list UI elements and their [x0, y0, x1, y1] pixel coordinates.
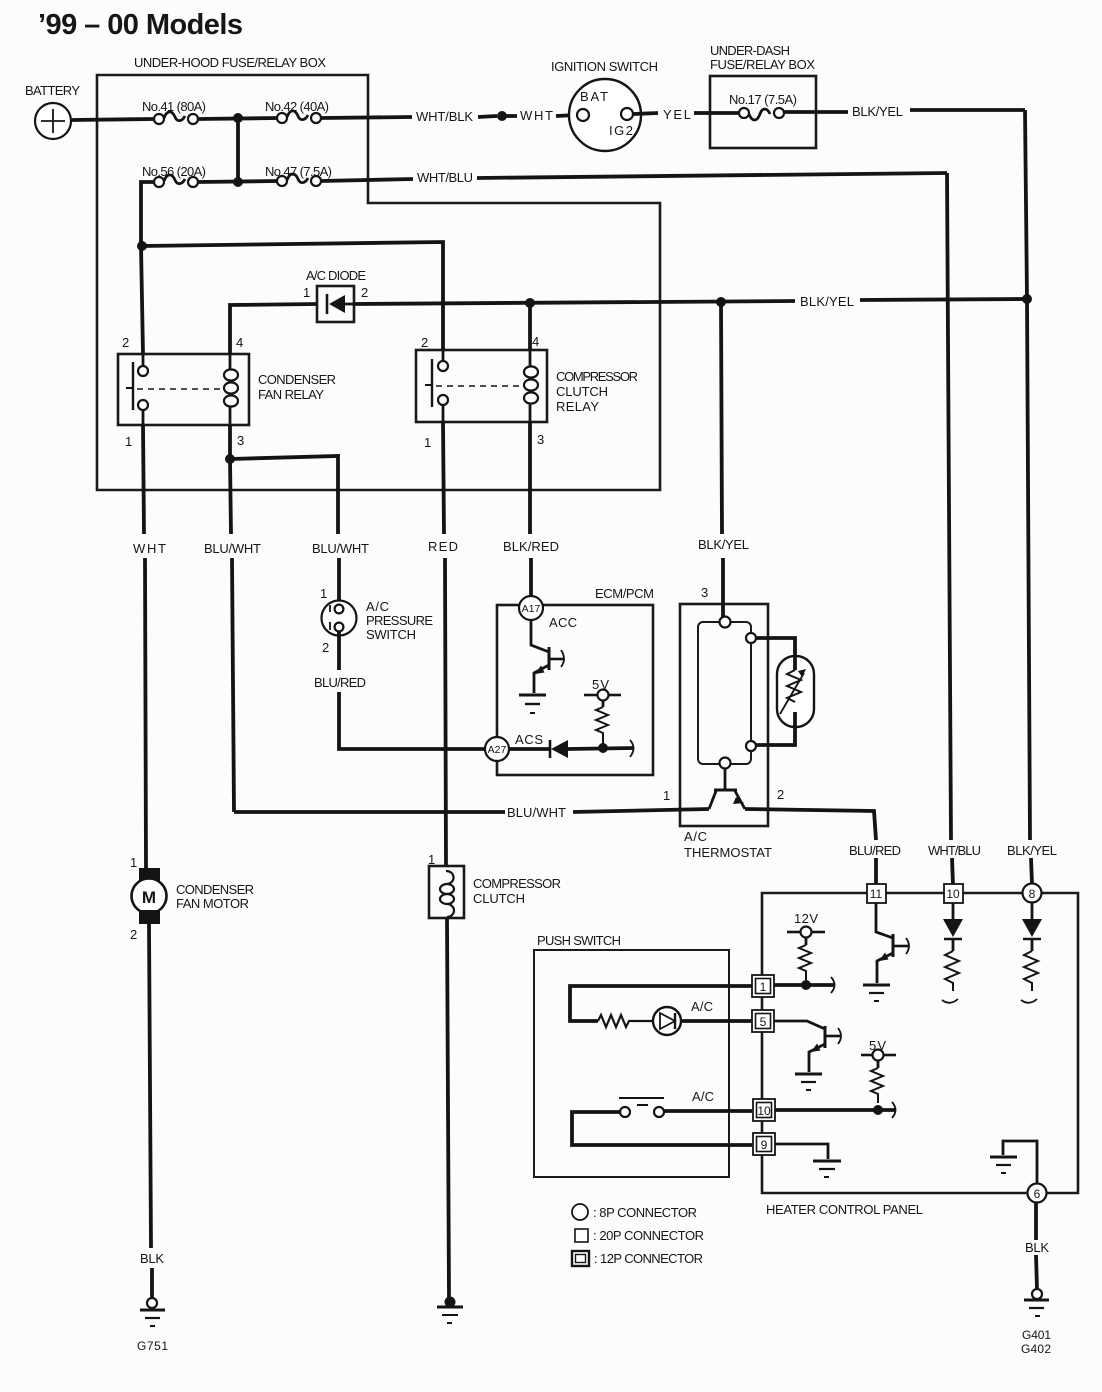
wire BLK/YEL thermostat column	[721, 302, 723, 617]
fuse No.17 (7.5A)	[729, 92, 797, 120]
wire IG2 to YEL label	[633, 113, 658, 114]
wire BLK panel to ground	[1036, 1203, 1037, 1289]
wire label BLU/WHT 2	[312, 541, 369, 556]
svg-text:2: 2	[361, 285, 368, 300]
svg-text:9: 9	[761, 1138, 768, 1152]
resistor R4 under pin10	[942, 951, 959, 1003]
svg-text:BLU/WHT: BLU/WHT	[312, 541, 369, 556]
svg-text:IGNITION SWITCH: IGNITION SWITCH	[551, 59, 658, 74]
wire compressor relay pin4 up to BLK/YEL row	[528, 303, 532, 350]
wire switch row to pin10	[664, 1109, 752, 1113]
svg-text:CONDENSER: CONDENSER	[258, 372, 336, 387]
diode D2 in ECM	[509, 740, 568, 758]
connector 11 20P	[867, 884, 886, 903]
ground in ECM	[519, 695, 546, 713]
svg-text:2: 2	[322, 640, 329, 655]
svg-text:A17: A17	[522, 603, 541, 615]
svg-text:ACS: ACS	[515, 732, 543, 747]
svg-text:A27: A27	[488, 744, 507, 756]
under-hood fuse/relay box	[97, 55, 660, 490]
svg-text:BLU/RED: BLU/RED	[314, 675, 366, 690]
svg-text:: 12P CONNECTOR: : 12P CONNECTOR	[594, 1251, 703, 1266]
svg-text:BLK/YEL: BLK/YEL	[800, 294, 854, 309]
svg-text:2: 2	[421, 335, 428, 350]
compressor clutch relay RY2	[416, 334, 638, 450]
wire thermostat pin2 to BLU/RED	[745, 809, 876, 884]
svg-text:A/C: A/C	[691, 999, 713, 1014]
fuse No.47 (7.5A)	[265, 164, 332, 186]
svg-text:A/C: A/C	[692, 1089, 714, 1104]
wire ACS line with junction	[568, 740, 634, 757]
svg-text:11: 11	[870, 887, 883, 901]
wire BLK/YEL right vertical lower	[1027, 299, 1032, 884]
wire label BLU/WHT 1	[204, 541, 261, 556]
ground G401 G402	[1021, 1289, 1051, 1356]
svg-text:BLK/YEL: BLK/YEL	[698, 537, 749, 552]
svg-text:4: 4	[532, 334, 539, 349]
junction node WHT	[497, 111, 507, 121]
svg-text:BLK/RED: BLK/RED	[503, 539, 559, 554]
ground G751	[137, 1298, 168, 1353]
svg-text:ACC: ACC	[549, 615, 577, 630]
wire lamp to pin5	[681, 1019, 752, 1023]
svg-text:RELAY: RELAY	[556, 399, 599, 414]
heater control panel box	[762, 893, 1078, 1217]
resistor R3 12V pullup	[799, 945, 811, 980]
svg-text:WHT/BLU: WHT/BLU	[928, 843, 981, 858]
wire label WHT/BLU right	[928, 843, 981, 858]
wire label BLK/YEL top	[852, 104, 903, 119]
svg-text:1: 1	[320, 586, 327, 601]
wire label BLK/YEL right	[1007, 843, 1057, 858]
wire pin10 internal with junction	[775, 1102, 896, 1118]
svg-text:G402: G402	[1021, 1342, 1051, 1356]
compressor clutch L1	[428, 852, 561, 918]
svg-text:ECM/PCM: ECM/PCM	[595, 586, 654, 601]
connector 6 8P	[1028, 1184, 1047, 1203]
svg-text:SWITCH: SWITCH	[366, 627, 416, 642]
junction node branch to compressor relay	[137, 241, 147, 251]
svg-text:PUSH SWITCH: PUSH SWITCH	[537, 933, 621, 948]
under-dash fuse/relay box	[710, 43, 816, 148]
thermistor RT1 capsule	[756, 638, 814, 745]
svg-text:No.17 (7.5A): No.17 (7.5A)	[729, 92, 797, 107]
svg-text:UNDER-DASH: UNDER-DASH	[710, 43, 790, 58]
wire pin6 internal bracket	[1003, 1141, 1037, 1184]
junction node row1	[233, 113, 243, 123]
ground Q2 emitter	[863, 985, 890, 1001]
svg-text:4: 4	[236, 335, 243, 350]
A/C pressure switch SW2	[320, 586, 433, 655]
svg-text:1: 1	[125, 434, 132, 449]
svg-text:1: 1	[424, 435, 431, 450]
svg-text:COMPRESSOR: COMPRESSOR	[556, 369, 638, 384]
svg-text:WHT/BLK: WHT/BLK	[416, 109, 473, 124]
junction node row2	[233, 177, 243, 187]
wire BLK/YEL to right corner	[910, 108, 1025, 112]
connector A17	[519, 596, 577, 630]
wire fuse41 to fuse42 with junction	[198, 118, 278, 119]
wire label WHT/BLK	[416, 109, 473, 124]
ECM/PCM U1	[497, 586, 654, 775]
wire BLU/RED pressure switch down	[339, 631, 484, 749]
ground pin6	[990, 1157, 1017, 1173]
wire label BLK left	[140, 1251, 164, 1266]
svg-text:YEL: YEL	[663, 107, 691, 122]
A/C thermostat TH1	[663, 585, 784, 860]
svg-text:G751: G751	[137, 1339, 168, 1353]
wire fuse47 to WHT/BLU label	[321, 179, 413, 181]
wire fuse56 to left corner	[141, 182, 154, 246]
legend 8P connector	[572, 1204, 697, 1220]
svg-text:WHT: WHT	[520, 108, 553, 123]
connector 10 12P	[753, 1099, 775, 1121]
svg-text:5: 5	[760, 1015, 767, 1029]
svg-text:No.41 (80A): No.41 (80A)	[142, 99, 206, 114]
wire branch to pressure switch column	[230, 456, 338, 490]
svg-text:G401: G401	[1022, 1328, 1051, 1342]
wire junction to fuse47	[198, 181, 278, 182]
wire pin9 internal to ground	[775, 1144, 828, 1159]
resistor R5 under pin8	[1021, 951, 1038, 1003]
svg-text:FAN MOTOR: FAN MOTOR	[176, 896, 249, 911]
wire switch loop to pin9	[572, 1112, 752, 1145]
wire BLU/WHT row to thermostat pin1	[234, 809, 709, 812]
svg-text:’99 – 00 Models: ’99 – 00 Models	[38, 9, 243, 41]
wire into fuse No.17	[710, 111, 739, 115]
wire condenser relay pin3 down	[228, 425, 232, 459]
wire label BLU/RED	[314, 675, 366, 690]
svg-text:: 20P CONNECTOR: : 20P CONNECTOR	[593, 1228, 704, 1243]
svg-text:BLU/RED: BLU/RED	[849, 843, 901, 858]
wire pin1 internal with junction	[774, 977, 835, 993]
A/C diode D1	[303, 268, 368, 322]
wire WHT/BLK to junction	[478, 116, 497, 117]
svg-text:FAN RELAY: FAN RELAY	[258, 387, 324, 402]
transistor Q3 pin5	[774, 1021, 841, 1072]
wire label RED	[428, 539, 458, 554]
svg-text:6: 6	[1034, 1187, 1041, 1201]
connector 9 12P	[753, 1133, 775, 1155]
connector A27	[485, 732, 543, 761]
svg-text:BLK/YEL: BLK/YEL	[852, 104, 903, 119]
5V supply in ECM	[584, 677, 621, 707]
svg-text:BAT: BAT	[580, 89, 608, 104]
wire label BLK right	[1025, 1240, 1049, 1255]
condenser fan relay RY1	[118, 335, 336, 449]
junction node BLK/YEL right vertical	[1022, 294, 1032, 304]
wire label BLU/WHT row	[507, 805, 566, 820]
svg-text:COMPRESSOR: COMPRESSOR	[473, 876, 561, 891]
svg-text:A/C DIODE: A/C DIODE	[306, 268, 366, 283]
svg-text:8: 8	[1029, 887, 1036, 901]
fuse No.56 (20A)	[142, 164, 206, 187]
12V supply in panel	[787, 911, 825, 945]
wire condenser relay pin4 to A/C diode	[230, 304, 317, 354]
legend 12P connector	[572, 1251, 703, 1266]
transistor Q1 in ECM	[531, 620, 564, 693]
wire WHT motor to ground	[149, 924, 152, 1298]
svg-text:CLUTCH: CLUTCH	[473, 891, 525, 906]
svg-text:RED: RED	[428, 539, 458, 554]
wire label BLK/YEL mid	[800, 294, 854, 309]
connector 8 8P	[1023, 884, 1042, 903]
svg-text:1: 1	[663, 788, 670, 803]
connector 1 12P	[752, 975, 774, 997]
wire RED column	[443, 422, 446, 866]
ignition switch SW1	[551, 59, 658, 151]
svg-text:CONDENSER: CONDENSER	[176, 882, 254, 897]
junction node pin3 branch	[225, 454, 235, 464]
5V supply in panel	[861, 1038, 896, 1068]
svg-text:UNDER-HOOD FUSE/RELAY BOX: UNDER-HOOD FUSE/RELAY BOX	[134, 55, 326, 70]
wire WHT/BLU right vertical	[947, 173, 953, 885]
thermostat output stage	[709, 768, 745, 809]
wire label WHT/BLU	[417, 170, 473, 185]
svg-text:CLUTCH: CLUTCH	[556, 384, 608, 399]
wire label WHT	[520, 108, 553, 123]
wire BLU/WHT column 1	[230, 459, 234, 812]
wire WHT to ignition BAT terminal	[556, 115, 577, 116]
svg-text:No.47 (7.5A): No.47 (7.5A)	[265, 164, 332, 179]
wire BLU/WHT column 2	[338, 490, 339, 602]
wire BLK/YEL row right segment	[860, 299, 1027, 300]
legend 20P connector	[575, 1228, 704, 1243]
connector 10 20P	[944, 884, 963, 903]
title '99-00 Models	[38, 9, 243, 41]
wire battery to fuse No.41	[72, 119, 155, 120]
wire BLK/YEL right vertical upper	[1025, 110, 1027, 299]
svg-text:: 8P CONNECTOR: : 8P CONNECTOR	[593, 1205, 697, 1220]
svg-text:1: 1	[760, 980, 767, 994]
wire label YEL	[663, 107, 691, 122]
svg-text:M: M	[142, 888, 156, 907]
svg-text:BATTERY: BATTERY	[25, 83, 80, 98]
svg-text:BLU/WHT: BLU/WHT	[204, 541, 261, 556]
wire BLK/RED column	[530, 422, 531, 596]
wire fuse17 to BLK/YEL label	[784, 110, 848, 114]
wire label BLK/YEL column	[698, 537, 749, 552]
momentary switch A/C	[619, 1089, 714, 1117]
svg-text:BLU/WHT: BLU/WHT	[507, 805, 566, 820]
wire row2 fuse56 feed from junction	[236, 118, 240, 182]
wire YEL to under-dash box	[694, 111, 710, 115]
indicator lamp A/C	[653, 999, 713, 1035]
svg-text:BLK: BLK	[140, 1251, 164, 1266]
svg-text:2: 2	[130, 927, 137, 942]
wire junction to WHT label	[506, 114, 517, 118]
svg-text:BLK/YEL: BLK/YEL	[1007, 843, 1057, 858]
svg-text:3: 3	[237, 433, 244, 448]
resistor R2 push switch	[598, 1015, 653, 1027]
transistor Q2 pin11	[876, 903, 909, 983]
svg-text:THERMOSTAT: THERMOSTAT	[684, 845, 772, 860]
ground pin9	[813, 1161, 841, 1177]
push switch box	[534, 933, 729, 1177]
wire WHT/BLU to right vertical	[477, 173, 947, 178]
svg-text:10: 10	[757, 1104, 771, 1118]
svg-text:HEATER CONTROL PANEL: HEATER CONTROL PANEL	[766, 1202, 923, 1217]
svg-text:3: 3	[701, 585, 708, 600]
wire label BLU/RED right	[849, 843, 901, 858]
wire RED clutch to ground	[447, 918, 449, 1298]
svg-text:WHT: WHT	[133, 541, 166, 556]
svg-text:3: 3	[537, 432, 544, 447]
svg-text:A/C: A/C	[684, 829, 707, 844]
svg-text:A/C: A/C	[366, 599, 389, 614]
svg-text:2: 2	[122, 335, 129, 350]
svg-text:2: 2	[777, 787, 784, 802]
svg-text:BLK: BLK	[1025, 1240, 1049, 1255]
condenser fan motor M1	[130, 855, 254, 942]
resistor R1 in ECM	[596, 707, 608, 748]
wire branch to compressor relay pin 2	[142, 242, 443, 350]
svg-text:FUSE/RELAY BOX: FUSE/RELAY BOX	[710, 57, 815, 72]
wire fuse42 to WHT/BLK label	[321, 117, 412, 118]
connector 5 12P	[752, 1010, 774, 1032]
fuse No.42 (40A)	[265, 99, 329, 123]
wire BLK/YEL diode row	[354, 301, 795, 304]
battery B1	[25, 83, 80, 139]
diode D4 under pin8	[1022, 903, 1042, 951]
wire WHT column	[143, 425, 146, 868]
svg-text:WHT/BLU: WHT/BLU	[417, 170, 473, 185]
wire label BLK/RED	[503, 539, 559, 554]
svg-text:PRESSURE: PRESSURE	[366, 613, 433, 628]
resistor R6 5V pullup	[871, 1068, 883, 1103]
wire push switch pin1 loop	[570, 986, 752, 1021]
svg-text:1: 1	[303, 285, 310, 300]
svg-text:1: 1	[130, 855, 137, 870]
svg-text:IG2: IG2	[609, 123, 633, 138]
diode D3 under pin10	[943, 903, 963, 951]
ground Q3 emitter	[795, 1074, 822, 1090]
junction node compressor coil feed	[525, 298, 535, 308]
fuse No.41 (80A)	[142, 99, 206, 124]
wire WHT vertical fuse56 down to condenser relay	[141, 246, 143, 354]
wire label WHT	[133, 541, 166, 556]
ground node compressor clutch	[437, 1297, 463, 1324]
svg-text:12V: 12V	[794, 911, 818, 926]
svg-text:10: 10	[946, 887, 960, 901]
junction node thermostat feed	[716, 297, 726, 307]
